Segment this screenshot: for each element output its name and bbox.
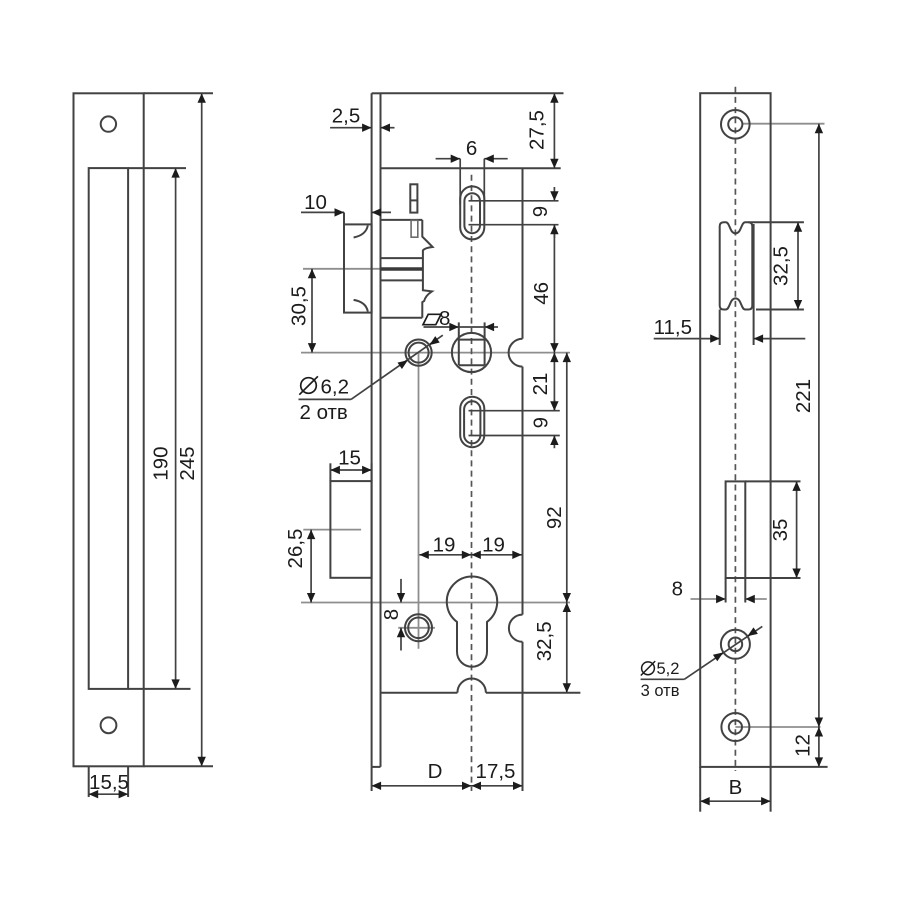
lock case right edge middle segment (522, 367, 524, 615)
lower oval arc-center extension lines (469, 410, 560, 412)
30,5 dimension line (311, 269, 313, 353)
arrow 11,5 right (754, 334, 764, 342)
arrow 35 top (792, 481, 800, 491)
arrow B left (700, 797, 710, 805)
svg-text:30,5: 30,5 (287, 286, 310, 326)
arrow 221 bottom (815, 718, 823, 728)
top oval slot inner (464, 193, 480, 233)
svg-text:19: 19 (433, 534, 456, 557)
lock case bottom edge right of notch with extension (486, 692, 581, 694)
dimension line 190 (175, 168, 177, 689)
plate left edge extension below (699, 767, 701, 812)
arrow 92 bottom (563, 593, 571, 603)
arrow 19 right (512, 551, 522, 559)
cutout left edge extension down (719, 310, 721, 346)
top extension line from faceplate (381, 92, 564, 94)
svg-text:27,5: 27,5 (526, 110, 549, 150)
latch block bottom edge (381, 317, 423, 319)
cylinder centerline horizontal (301, 602, 570, 604)
faceplate left edge (371, 93, 373, 767)
faceplate bottom cap (372, 766, 381, 768)
follower circle (452, 333, 491, 372)
arrow 32,5 top (794, 222, 802, 232)
svg-text:11,5: 11,5 (654, 316, 692, 339)
arrow square8 right (485, 323, 495, 331)
dimension 6 stems (436, 158, 461, 160)
upper 6.2 hole inner circle (409, 343, 429, 363)
diameter symbol for 6,2 (299, 376, 318, 394)
svg-text:9: 9 (529, 417, 552, 428)
follower square hole top (459, 339, 485, 341)
top screw hole outer (721, 110, 750, 139)
arrow 35 bottom (792, 569, 800, 579)
svg-text:D: D (428, 760, 443, 783)
svg-text:32,5: 32,5 (769, 246, 792, 286)
slot right edge extension below plate (127, 766, 129, 797)
slot left edge extension down (725, 578, 727, 603)
lock case top edge (381, 167, 561, 169)
arrow 8 down to cylinder line (397, 593, 405, 603)
svg-text:26,5: 26,5 (284, 529, 307, 569)
svg-text:2 отв: 2 отв (300, 401, 348, 424)
latch extension line up from bolt (343, 212, 345, 224)
deadbolt centerline horizontal (303, 529, 361, 531)
bottom edge extension line (144, 765, 213, 767)
arrow 8 left (716, 595, 726, 603)
top edge extension line (144, 92, 213, 94)
svg-text:8: 8 (380, 609, 403, 620)
latch block right edge with two sawtooth tabs (422, 220, 432, 318)
svg-text:9: 9 (529, 206, 552, 217)
arrow 190 top (171, 168, 179, 178)
dimension line 245 (201, 93, 203, 766)
lock case right edge upper segment (522, 168, 524, 339)
svg-text:6,2: 6,2 (321, 376, 350, 399)
svg-text:2,5: 2,5 (332, 105, 361, 128)
bottom screw hole (101, 717, 117, 733)
slot right edge extension down (744, 578, 746, 603)
svg-text:12: 12 (791, 734, 814, 757)
dimension line 15,5 (89, 793, 128, 795)
arrow 190 bottom (171, 679, 179, 689)
euro cylinder keyhole silhouette (447, 576, 497, 666)
follower cutout bone shape (720, 222, 753, 309)
arrow 32,5 bottom (563, 683, 571, 693)
arrow 21 bottom / 9 lower top (550, 401, 558, 411)
leader line diameter 5,2 (641, 678, 685, 680)
mortise slot rectangle (89, 168, 128, 689)
latch block top edge (381, 219, 423, 221)
hole axis vertical through both 6.2 holes (418, 353, 420, 649)
follower square hole left side with extension up (458, 322, 460, 365)
top oval slot outer (460, 186, 484, 239)
deadbolt right extension up (371, 463, 373, 481)
lower 6.2 hole inner circle (408, 618, 429, 639)
arrow 15,5 right (119, 790, 129, 798)
case right edge extension down to D dimension (522, 693, 524, 791)
arrow 6 left (451, 155, 461, 163)
svg-text:190: 190 (149, 446, 172, 480)
arrow 221 top (815, 124, 823, 134)
arrow 12 top (815, 727, 823, 737)
arrow 9 upper top (outside) (550, 191, 558, 201)
lock case bottom edge left of notch (381, 692, 458, 694)
arrow 10 right (372, 208, 382, 216)
svg-text:46: 46 (530, 282, 553, 305)
top screw hole (101, 116, 116, 131)
oval top arc-center extension lines (469, 200, 559, 202)
lower oval slot outer (460, 397, 484, 448)
svg-text:19: 19 (482, 534, 505, 557)
spring guide rectangle upper (410, 184, 417, 212)
32,5 dimension line right view (797, 222, 799, 309)
221 and 12 dimension line (818, 124, 820, 767)
upper 6.2 hole outer circle (406, 340, 432, 366)
8 dimension gray stems (691, 598, 726, 600)
strike plate outline (74, 93, 144, 766)
top hole horizontal centerline extension (742, 123, 824, 125)
plate right edge extension below (770, 767, 772, 812)
arrows D/17,5 center pair (462, 782, 472, 790)
arrow 17,5 right (513, 782, 523, 790)
svg-text:17,5: 17,5 (476, 760, 516, 783)
arrows 19/19 center pair (462, 551, 472, 559)
deadbolt slot rectangle (726, 481, 746, 578)
vertical chain dimension line upper (27.5/9/46/21/9) (553, 93, 555, 168)
follower centerline horizontal (301, 352, 570, 354)
middle 5.2 hole outer (721, 630, 750, 659)
lower oval slot inner (464, 401, 480, 443)
arrow B right (761, 797, 771, 805)
svg-text:10: 10 (304, 191, 327, 214)
26,5 dimension line (310, 530, 312, 603)
arrow 12 bottom (815, 757, 823, 767)
square 8 dimension line (424, 326, 459, 328)
latch bolt rectangle protruding left (344, 224, 372, 312)
follower square hole bottom (459, 364, 485, 366)
latch bolt lower bevel curve (354, 300, 368, 312)
faceplate left edge extension below (371, 767, 373, 791)
35 dimension line (796, 481, 798, 578)
follower square hole right side with extension up (484, 322, 486, 365)
slot bottom edge extension right (745, 577, 800, 579)
svg-text:8: 8 (439, 307, 450, 330)
bottom hole short horizontal centerline (398, 627, 435, 629)
arrow 21 top (550, 353, 558, 363)
arrow diameter 5,2 upper on circle (745, 627, 758, 639)
svg-text:92: 92 (543, 506, 566, 529)
deadbolt rectangle (330, 481, 371, 578)
latch bolt upper bevel curve (354, 226, 368, 238)
svg-text:6: 6 (466, 137, 477, 160)
cylinder notch semicircle in right edge (509, 615, 523, 642)
arrow diameter 5,2 lower on circle (713, 649, 726, 661)
svg-text:15,5: 15,5 (89, 771, 129, 794)
svg-text:21: 21 (529, 373, 552, 396)
arrow 27,5 bottom (550, 159, 558, 169)
8 dimension stems vertical (400, 579, 402, 603)
arrow 9 lower bottom (outside) (550, 436, 558, 446)
svg-text:15: 15 (338, 447, 361, 470)
arrow 15,5 left (89, 790, 99, 798)
slot top extension line (128, 167, 186, 169)
bottom 5.2 hole inner (729, 720, 742, 733)
latch centerline horizontal (303, 268, 423, 270)
D and 17,5 dimension line (372, 785, 523, 787)
arrow 92 top (563, 353, 571, 363)
15 dimension line (330, 469, 371, 471)
arrow 10 left (335, 208, 345, 216)
latch spring thick bar (381, 267, 423, 270)
bottom notch semicircle bulging up (457, 679, 486, 693)
arrow 26,5 top (307, 530, 315, 540)
arrow 6 right (484, 155, 494, 163)
arrow 27,5 top (550, 93, 558, 103)
arrow 19 left (419, 551, 429, 559)
arrow 30,5 top (308, 269, 316, 279)
cutout top edge extension right (748, 221, 804, 223)
right plate outline (700, 93, 770, 767)
latch block internal line upper (381, 257, 423, 259)
leader line diameter 6,2 (299, 398, 352, 400)
svg-text:5,2: 5,2 (657, 660, 680, 678)
dimension 2,5 stems (330, 127, 372, 129)
vertical 92 and 32,5 dimension line (566, 353, 568, 693)
square symbol of square8 (423, 314, 441, 324)
slot top edge extension right (745, 480, 800, 482)
svg-text:221: 221 (792, 379, 815, 413)
latch block internal line lower (381, 279, 423, 281)
diameter symbol for 5,2 (641, 661, 655, 675)
middle 5.2 hole inner (729, 638, 743, 652)
lock case right edge lower segment (522, 642, 524, 693)
dimension 10 stems (301, 211, 344, 213)
bottom hole horizontal centerline extension (735, 726, 820, 728)
slot bottom extension line (128, 688, 190, 690)
arrow 8 right (745, 595, 755, 603)
B dimension line (700, 800, 770, 802)
arrow 15 left (330, 466, 340, 474)
arrow diameter 6,2 lower on circle (397, 357, 410, 369)
arrow square8 left (449, 323, 459, 331)
arrow 2,5 right (381, 124, 391, 132)
slot left edge extension below plate (88, 766, 90, 797)
11,5 dimension stems (654, 338, 720, 340)
svg-text:8: 8 (672, 578, 683, 601)
deadbolt left extension up (329, 463, 331, 481)
svg-text:B: B (729, 776, 743, 799)
svg-text:32,5: 32,5 (533, 621, 556, 661)
arrow 32,5 bottom (794, 300, 802, 310)
arrow 15 right (362, 466, 372, 474)
main dashed centerline of lock (471, 175, 473, 791)
spring guide divider (410, 199, 417, 201)
arrow 245 bottom (198, 757, 206, 767)
arrow 11,5 left (710, 334, 720, 342)
faceplate right edge (380, 93, 382, 767)
follower notch semicircle in right edge (509, 339, 523, 367)
arrow 26,5 bottom (307, 593, 315, 603)
plate bottom extension right (771, 766, 828, 768)
right plate dashed centerline (734, 87, 736, 771)
cutout right extension line vertical (753, 224, 755, 345)
arrow 9 upper bottom / 46 top (550, 225, 558, 235)
bottom 5.2 hole outer (721, 713, 749, 741)
svg-text:35: 35 (769, 519, 792, 542)
arrow 245 top (198, 93, 206, 103)
arrow 32,5 top (563, 603, 571, 613)
arrow diameter 6,2 upper on circle (427, 336, 440, 348)
cutout bottom edge extension right (756, 309, 804, 311)
arrow 8 up to hole line (397, 628, 405, 638)
top screw hole inner (728, 117, 742, 131)
arrow 46 bottom (550, 343, 558, 353)
19/19 dimension line (419, 554, 522, 556)
dimension 6 extension lines (459, 159, 461, 205)
lower 6.2 hole outer circle (405, 614, 432, 641)
spring guide rectangle lower (411, 220, 418, 237)
svg-text:245: 245 (176, 446, 199, 480)
arrow 30,5 bottom (308, 343, 316, 353)
arrow D left (372, 782, 382, 790)
arrow 2,5 left (362, 124, 372, 132)
svg-text:3 отв: 3 отв (641, 682, 680, 700)
faceplate top cap (372, 92, 381, 94)
